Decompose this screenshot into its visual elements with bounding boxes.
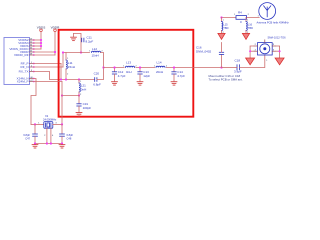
wire VDDS_DCDC to bus — [34, 48, 42, 50]
pin VDDS2 — [18, 38, 33, 42]
wire crystal bottom — [35, 143, 62, 145]
wire SMA left pin4 to gnd — [250, 50, 254, 52]
wire RF_P riser — [60, 64, 62, 80]
svg-text:20nH: 20nH — [156, 70, 163, 74]
svg-text:4.7pF: 4.7pF — [177, 74, 185, 78]
wire L21 to X24M_P line — [62, 95, 79, 97]
SECTION: balun — [60, 34, 222, 125]
ground G4 — [137, 82, 143, 85]
crystal X2 — [43, 114, 57, 128]
inductor L12 — [89, 47, 103, 57]
power VDDR — [51, 25, 61, 31]
svg-text:RX_TX: RX_TX — [19, 70, 29, 74]
junction C13 — [139, 66, 141, 68]
inductor L14 — [154, 60, 168, 73]
IC U1 body — [4, 38, 30, 85]
pin VDDR — [20, 50, 34, 54]
svg-text:Antenna PCB helix 434MHz: Antenna PCB helix 434MHz — [257, 21, 290, 25]
svg-text:TBD: TBD — [248, 26, 253, 30]
svg-text:X2: X2 — [45, 114, 49, 118]
wire main line — [104, 67, 222, 69]
SECTION: chip — [4, 25, 63, 84]
junction L21 bottom — [78, 94, 80, 96]
pin VDDS — [20, 44, 34, 48]
svg-text:24.000MHz: 24.000MHz — [43, 117, 57, 121]
antenna ANT1 — [257, 3, 290, 25]
pin VDDS_DCDC — [9, 47, 33, 51]
wire crystal right — [53, 123, 62, 125]
svg-text:15nH: 15nH — [68, 65, 75, 69]
capacitor C14 — [172, 68, 185, 82]
connector J1 SMA — [258, 36, 287, 55]
wire SMA right pin5 to gnd — [276, 50, 280, 52]
wire RF_N riser — [62, 53, 64, 68]
junction C11 node — [80, 51, 82, 53]
capacitor C48 — [60, 124, 74, 143]
svg-text:C18: C18 — [235, 59, 241, 63]
pin RF_P — [21, 62, 34, 66]
wire X24M_N route — [31, 79, 36, 125]
junction VDDS bus 2 — [40, 42, 42, 44]
svg-text:0nH: 0nH — [81, 87, 87, 91]
svg-text:C20: C20 — [94, 72, 100, 76]
wire main to C18 — [223, 67, 237, 69]
junction VDDS bus — [40, 39, 42, 41]
svg-text:0nH: 0nH — [126, 70, 132, 74]
inductor L21 — [79, 80, 86, 97]
wire crystal pin2 — [46, 128, 48, 143]
power VDDS — [37, 25, 46, 31]
ground G9 — [275, 58, 284, 65]
SECTION: redbox — [59, 30, 194, 117]
wire VDDS3 to bus — [34, 42, 42, 44]
svg-text:VDDS: VDDS — [37, 25, 46, 29]
junction L16 — [245, 16, 247, 18]
wire L12 to main — [101, 53, 104, 68]
pin X24M_N — [17, 77, 34, 81]
ground G3 — [112, 82, 118, 85]
junction C14 — [173, 66, 175, 68]
wire RX_TX — [34, 72, 62, 80]
svg-text:To select PCB or SMA ant.: To select PCB or SMA ant. — [209, 78, 243, 82]
junction SMA right — [279, 50, 281, 52]
highlight box — [59, 30, 194, 117]
wire VDDS to bus — [34, 45, 42, 47]
svg-text:X24M_P: X24M_P — [17, 80, 29, 84]
svg-text:4.7pF: 4.7pF — [118, 74, 126, 78]
svg-text:C48: C48 — [67, 136, 72, 140]
wire top node — [63, 52, 90, 54]
wire RF_N — [34, 66, 64, 68]
wire gnd to C11 node — [74, 34, 82, 53]
resistor R4 — [234, 10, 250, 24]
ground G5 — [171, 82, 177, 85]
svg-text:12pF: 12pF — [143, 74, 150, 78]
svg-text:L13: L13 — [126, 60, 131, 64]
ground G6 — [218, 33, 225, 39]
capacitor C47 — [23, 124, 37, 143]
svg-text:6.8pF: 6.8pF — [23, 133, 30, 137]
wire X24M_P route — [34, 81, 63, 83]
svg-text:L16: L16 — [248, 22, 253, 26]
svg-text:8.2pF: 8.2pF — [86, 40, 94, 44]
pin RX_TX — [19, 70, 34, 74]
svg-text:L12: L12 — [92, 47, 97, 51]
SECTION: crystal — [23, 79, 73, 149]
wire C18 to SMA — [240, 55, 265, 67]
pin stubs SMA left — [254, 44, 258, 51]
pin stubs SMA right — [272, 44, 276, 51]
wire C20 to main — [97, 68, 104, 80]
junction L11 bottom — [65, 78, 67, 80]
svg-text:C47: C47 — [25, 136, 30, 140]
capacitor C12 — [112, 68, 125, 82]
inductor L13 — [123, 60, 137, 73]
wire SMA left pins to gnd — [250, 46, 254, 58]
wire bottom node — [61, 79, 94, 81]
svg-text:L14: L14 — [157, 60, 162, 64]
svg-text:TBD: TBD — [223, 26, 228, 30]
wire VDDR_RF to bus — [34, 54, 56, 56]
ground G1 — [71, 34, 77, 41]
junction C12 — [113, 66, 115, 68]
pin VDDR_RF — [14, 53, 34, 57]
svg-text:6.8pF: 6.8pF — [93, 82, 101, 86]
pin RF_N — [21, 65, 34, 69]
wire VDDS bus — [40, 32, 42, 49]
junction L21 top — [78, 78, 80, 80]
capacitor C20 — [93, 72, 101, 87]
junction RF_N riser top — [62, 51, 64, 53]
junction C16 tap — [220, 66, 222, 68]
junction SMA left — [249, 50, 251, 52]
svg-text:15nH: 15nH — [92, 53, 99, 57]
wire crystal pin4 — [50, 128, 52, 143]
junction left cap — [34, 123, 36, 125]
capacitor C11 — [82, 36, 94, 44]
pin end dots — [33, 39, 35, 41]
junction rail bottom — [60, 78, 62, 80]
svg-text:100pF: 100pF — [83, 106, 92, 110]
capacitor C13 — [138, 68, 151, 82]
svg-text:VDDR_RF: VDDR_RF — [14, 53, 29, 57]
junction right cap — [61, 123, 63, 125]
inductor L16 — [246, 18, 253, 35]
junction bottom right — [50, 142, 52, 144]
wire VDDR bus — [54, 32, 56, 55]
ground G7 — [242, 33, 249, 39]
inductor L11 — [66, 53, 75, 80]
ground G2 — [76, 113, 82, 116]
svg-text:SMA-1012-TO6: SMA-1012-TO6 — [268, 36, 287, 40]
junction VDDR bus — [54, 51, 56, 53]
svg-text:6.8pF: 6.8pF — [67, 133, 74, 137]
svg-text:3.9pF: 3.9pF — [234, 70, 242, 74]
inductor L15 — [222, 18, 229, 35]
wire crystal left — [31, 123, 44, 125]
capacitor C31 — [77, 96, 91, 113]
note text — [209, 74, 243, 82]
wire RF_P — [34, 63, 62, 65]
junction VDDS bus 3 — [40, 45, 42, 47]
pin VDDS3 — [18, 41, 33, 45]
junction L15 — [220, 16, 222, 18]
SECTION: antenna — [196, 3, 289, 82]
svg-text:RF_N: RF_N — [21, 65, 29, 69]
junction bottom left — [46, 142, 48, 144]
wire VDDS2 to bus — [34, 39, 42, 41]
ground G11 — [59, 145, 65, 148]
svg-text:VDDR: VDDR — [51, 25, 61, 29]
wire SMA right pins to gnd — [276, 46, 280, 58]
ground G10 — [32, 145, 38, 148]
junction main left — [102, 66, 104, 68]
pin X24M_P — [17, 80, 34, 84]
wire antenna top line — [222, 17, 260, 19]
wire X24M_P vertical — [61, 82, 63, 125]
junction cap bottom left — [34, 142, 36, 144]
wire VDDR to bus — [34, 51, 56, 53]
svg-text:DNM_0402: DNM_0402 — [196, 50, 212, 54]
junction cap bottom right — [61, 142, 63, 144]
svg-text:R4: R4 — [238, 10, 242, 14]
svg-text:L15: L15 — [223, 22, 228, 26]
capacitor C16 — [196, 43, 224, 68]
ground G8 — [246, 58, 255, 65]
capacitor C18 — [234, 59, 242, 74]
junction X24M_P tee — [61, 94, 63, 96]
